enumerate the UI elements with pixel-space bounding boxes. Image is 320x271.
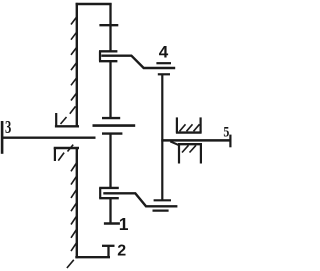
bearing block B3 upper (shaft 3 on wall) — [55, 106, 79, 126]
shaft 1 upper segment — [109, 3, 111, 51]
shaft 4 — [161, 74, 163, 200]
shaft 3 — [1, 136, 95, 138]
gear mesh line lower (to shaft 4 gear) — [103, 193, 177, 206]
gear Z1 (upper gear on shaft 1) — [99, 51, 117, 61]
bearing tick on shaft 1 — [99, 24, 118, 26]
shaft 1 bottom segment — [109, 198, 111, 224]
frame wall — [76, 3, 78, 258]
wall hatching upper — [71, 17, 77, 101]
shaft 4 bottom T-bar — [154, 199, 171, 201]
svg-text:5: 5 — [223, 123, 229, 139]
shaft 1 middle segment — [109, 62, 111, 119]
housing top line — [76, 3, 112, 5]
shaft 2 stub — [107, 246, 109, 258]
bearing block B5 lower (shaft 5) — [178, 144, 202, 163]
svg-text:1: 1 — [119, 214, 129, 234]
gear mesh line upper (to shaft 4 gear) — [101, 56, 175, 68]
gear Z4 top short line — [156, 62, 171, 64]
svg-text:2: 2 — [117, 243, 126, 260]
shaft 2 T-bar — [102, 245, 115, 247]
housing bottom hatch — [67, 260, 74, 268]
wall hatching lower — [71, 163, 77, 251]
housing bottom line — [75, 256, 110, 258]
bevel gear lower T — [102, 132, 122, 134]
bevel gear wide line (shaft 3 gear) — [93, 124, 136, 127]
shaft 1 lower segment — [109, 134, 111, 189]
gear Z4 bottom short line — [153, 210, 169, 212]
bearing block B3 lower (shaft 3 on wall) — [54, 145, 79, 161]
svg-text:4: 4 — [159, 42, 169, 61]
shaft 5 end tick — [229, 135, 231, 148]
shaft 3 end bar — [1, 121, 4, 154]
bearing diagonal (shaft 5 lower support) — [170, 141, 179, 145]
bevel gear upper T — [102, 117, 120, 119]
gear Z2 (lower gear on shaft 1) — [99, 188, 119, 198]
svg-text:3: 3 — [5, 118, 11, 138]
shaft 4 top T-bar — [158, 73, 170, 75]
bearing block B5 upper (shaft 5) — [176, 117, 202, 132]
shaft 5 — [161, 139, 230, 142]
shaft 1 end T-bar — [104, 222, 120, 224]
